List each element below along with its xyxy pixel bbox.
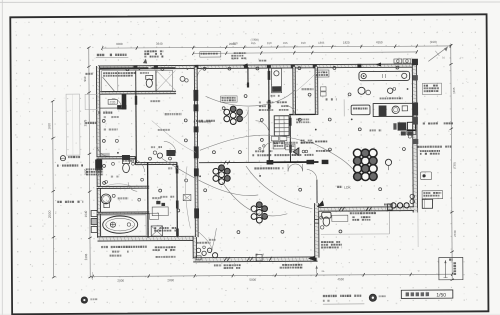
svg-text:1365: 1365 bbox=[318, 41, 325, 45]
svg-text:3640: 3640 bbox=[156, 42, 163, 46]
svg-text:910: 910 bbox=[267, 41, 272, 45]
svg-text:2000: 2000 bbox=[48, 210, 52, 218]
svg-text:4550: 4550 bbox=[337, 277, 344, 281]
svg-text:5000: 5000 bbox=[249, 278, 256, 282]
svg-text:LDK: LDK bbox=[344, 186, 351, 190]
svg-text:455: 455 bbox=[251, 41, 256, 45]
svg-text:2890: 2890 bbox=[167, 278, 174, 282]
svg-text:4550: 4550 bbox=[376, 40, 383, 44]
svg-text:1/50: 1/50 bbox=[436, 292, 446, 298]
svg-text:4000: 4000 bbox=[116, 42, 123, 46]
svg-text:w: w bbox=[418, 269, 420, 272]
svg-text:910: 910 bbox=[83, 76, 87, 81]
svg-text:910: 910 bbox=[233, 41, 238, 45]
svg-text:1640: 1640 bbox=[84, 210, 88, 217]
svg-text:455: 455 bbox=[283, 41, 288, 45]
svg-text:2730: 2730 bbox=[453, 230, 457, 237]
svg-text:(730): (730) bbox=[452, 162, 456, 169]
svg-text:C20: C20 bbox=[110, 100, 116, 104]
svg-text:(910): (910) bbox=[430, 40, 437, 44]
svg-text:1820: 1820 bbox=[343, 41, 350, 45]
svg-text:2000: 2000 bbox=[117, 279, 124, 283]
svg-text:910: 910 bbox=[301, 41, 306, 45]
svg-text:1365: 1365 bbox=[452, 87, 456, 94]
svg-text:N: N bbox=[442, 56, 444, 60]
svg-text:1820: 1820 bbox=[47, 123, 51, 130]
